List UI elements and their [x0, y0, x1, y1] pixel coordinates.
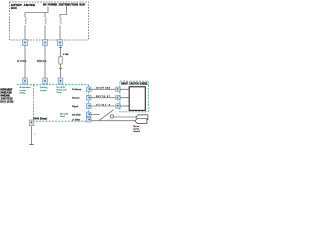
wire row 3 [91, 105, 116, 107]
wire below fuse F2 [44, 25, 46, 39]
svg-text:GY/VT 664: GY/VT 664 [96, 88, 111, 90]
SJB box right edge [88, 85, 90, 122]
svg-text:Relay: Relay [20, 92, 26, 94]
svg-text:Signal: Signal [72, 106, 79, 108]
fuse F3 [60, 18, 61, 24]
battery junction box (dashed enclosure) [10, 2, 89, 40]
svg-text:Lamps: Lamps [40, 90, 47, 92]
svg-text:Ground: Ground [133, 131, 140, 133]
offpage connector B [135, 119, 147, 124]
svg-text:DK GRN: DK GRN [72, 114, 81, 116]
wire below fuse F1 [24, 25, 26, 39]
fuse F2 [45, 17, 46, 23]
wire feed 2 [60, 6, 67, 18]
tick on wire 3 lower [59, 67, 62, 69]
stub wire row 2 [120, 97, 129, 99]
smart junction box (dashed enclosure) [120, 81, 149, 112]
svg-text:BOX: BOX [79, 3, 85, 7]
connector R2 on SJB right edge [86, 95, 91, 100]
svg-text:Ground: Ground [72, 97, 80, 100]
svg-text:LT GRN: LT GRN [72, 120, 80, 122]
svg-text:BN/OG: BN/OG [37, 61, 46, 63]
tick C270 on wire 3 [59, 47, 62, 49]
svg-text:Feed: Feed [60, 116, 66, 118]
connector C3 on battery box edge [58, 40, 63, 46]
connector C2 on battery box edge [43, 40, 48, 46]
SJB box top edge [17, 84, 89, 86]
module U1 [129, 87, 145, 111]
svg-text:GY/OG: GY/OG [17, 61, 26, 63]
svg-text:BK/YE 57: BK/YE 57 [96, 96, 111, 98]
SJB box bottom edge [30, 120, 92, 122]
connector R5 on SJB right edge [86, 117, 91, 122]
connector P3 at smart box [116, 104, 120, 108]
wire drop 3 upper [60, 46, 62, 57]
svg-text:Parklamp: Parklamp [72, 88, 82, 91]
wire branch to fuse F1 [24, 13, 26, 18]
wire row 2 [91, 97, 116, 99]
svg-text:VT/GY 9: VT/GY 9 [96, 104, 111, 106]
svg-text:BOX: BOX [11, 6, 17, 10]
wire B to offpage [91, 120, 135, 122]
wire branch to fuse F2 [44, 13, 46, 18]
svg-text:Parking: Parking [40, 86, 48, 89]
svg-text:S400 (Rear): S400 (Rear) [33, 117, 47, 120]
wire below fuse F3 [59, 26, 61, 40]
twist loop [110, 115, 113, 118]
svg-text:BOX (SJB): BOX (SJB) [140, 84, 148, 86]
connector R4 on SJB right edge [86, 112, 91, 117]
wire row 1 [91, 88, 116, 90]
connector C5 on SJB top edge [43, 78, 48, 84]
svg-text:DISTRIBUTION: DISTRIBUTION [59, 3, 78, 7]
svg-text:JUNCTION: JUNCTION [24, 3, 36, 7]
tick end of S400 wire [29, 144, 33, 146]
connector C1 on battery box edge [23, 40, 28, 46]
stub wire row 3 [120, 105, 129, 107]
offpage connector A [136, 115, 148, 120]
twisted pair crossover [99, 110, 114, 121]
svg-text:BOX (SJB): BOX (SJB) [0, 101, 13, 104]
svg-text:SMART: SMART [121, 83, 129, 86]
connector C4 on SJB top edge [23, 78, 28, 84]
svg-text:W/: W/ [43, 3, 47, 7]
svg-text:Feed: Feed [57, 92, 63, 94]
stub wire row 1 [120, 88, 129, 90]
svg-text:Illumination: Illumination [20, 86, 32, 89]
SJB box left edge [33, 85, 35, 122]
svg-text:4 WB: 4 WB [63, 54, 69, 56]
connector P2 at smart box [116, 96, 120, 100]
connector C6 on SJB top edge [58, 78, 63, 84]
wire row 4 stub [91, 113, 100, 115]
wire A to offpage [114, 116, 136, 118]
connector P1 at smart box [116, 87, 120, 91]
svg-text:JUNCTION: JUNCTION [129, 84, 139, 86]
fuse F1 [25, 17, 26, 23]
connector R3 on SJB right edge [86, 104, 91, 109]
svg-text:POWER: POWER [48, 3, 58, 7]
wire feed 1 [25, 7, 48, 13]
connector R1 on SJB right edge [86, 87, 91, 92]
wire drop 3 lower [60, 64, 62, 78]
inline component S160 on wire 3 [59, 57, 62, 64]
wire drop 1 [24, 46, 26, 79]
connector S400 on SJB bottom edge [29, 120, 34, 126]
wire drop 2 [44, 46, 46, 79]
wire S400 drop [31, 126, 33, 144]
